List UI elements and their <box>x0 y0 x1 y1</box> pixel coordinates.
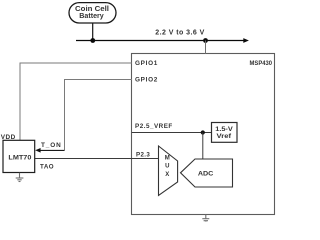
svg-text:GPIO2: GPIO2 <box>135 76 158 83</box>
svg-text:Vref: Vref <box>217 133 233 140</box>
svg-text:Coin Cell: Coin Cell <box>75 6 109 13</box>
svg-text:P2.3: P2.3 <box>136 151 150 158</box>
svg-text:VDD: VDD <box>1 134 16 141</box>
svg-text:1.5-V: 1.5-V <box>215 126 233 133</box>
svg-text:M: M <box>165 156 170 162</box>
svg-text:ADC: ADC <box>198 170 214 177</box>
svg-text:X: X <box>165 172 169 178</box>
svg-text:GPIO1: GPIO1 <box>135 60 158 67</box>
svg-text:LMT70: LMT70 <box>8 155 31 162</box>
svg-text:MSP430: MSP430 <box>250 60 273 67</box>
svg-text:U: U <box>165 164 169 170</box>
svg-text:2.2 V to 3.6 V: 2.2 V to 3.6 V <box>155 30 205 37</box>
svg-text:P2.5_VREF: P2.5_VREF <box>135 123 173 130</box>
svg-text:TAO: TAO <box>40 164 54 171</box>
svg-text:Battery: Battery <box>79 13 104 20</box>
svg-text:T_ON: T_ON <box>41 142 62 149</box>
